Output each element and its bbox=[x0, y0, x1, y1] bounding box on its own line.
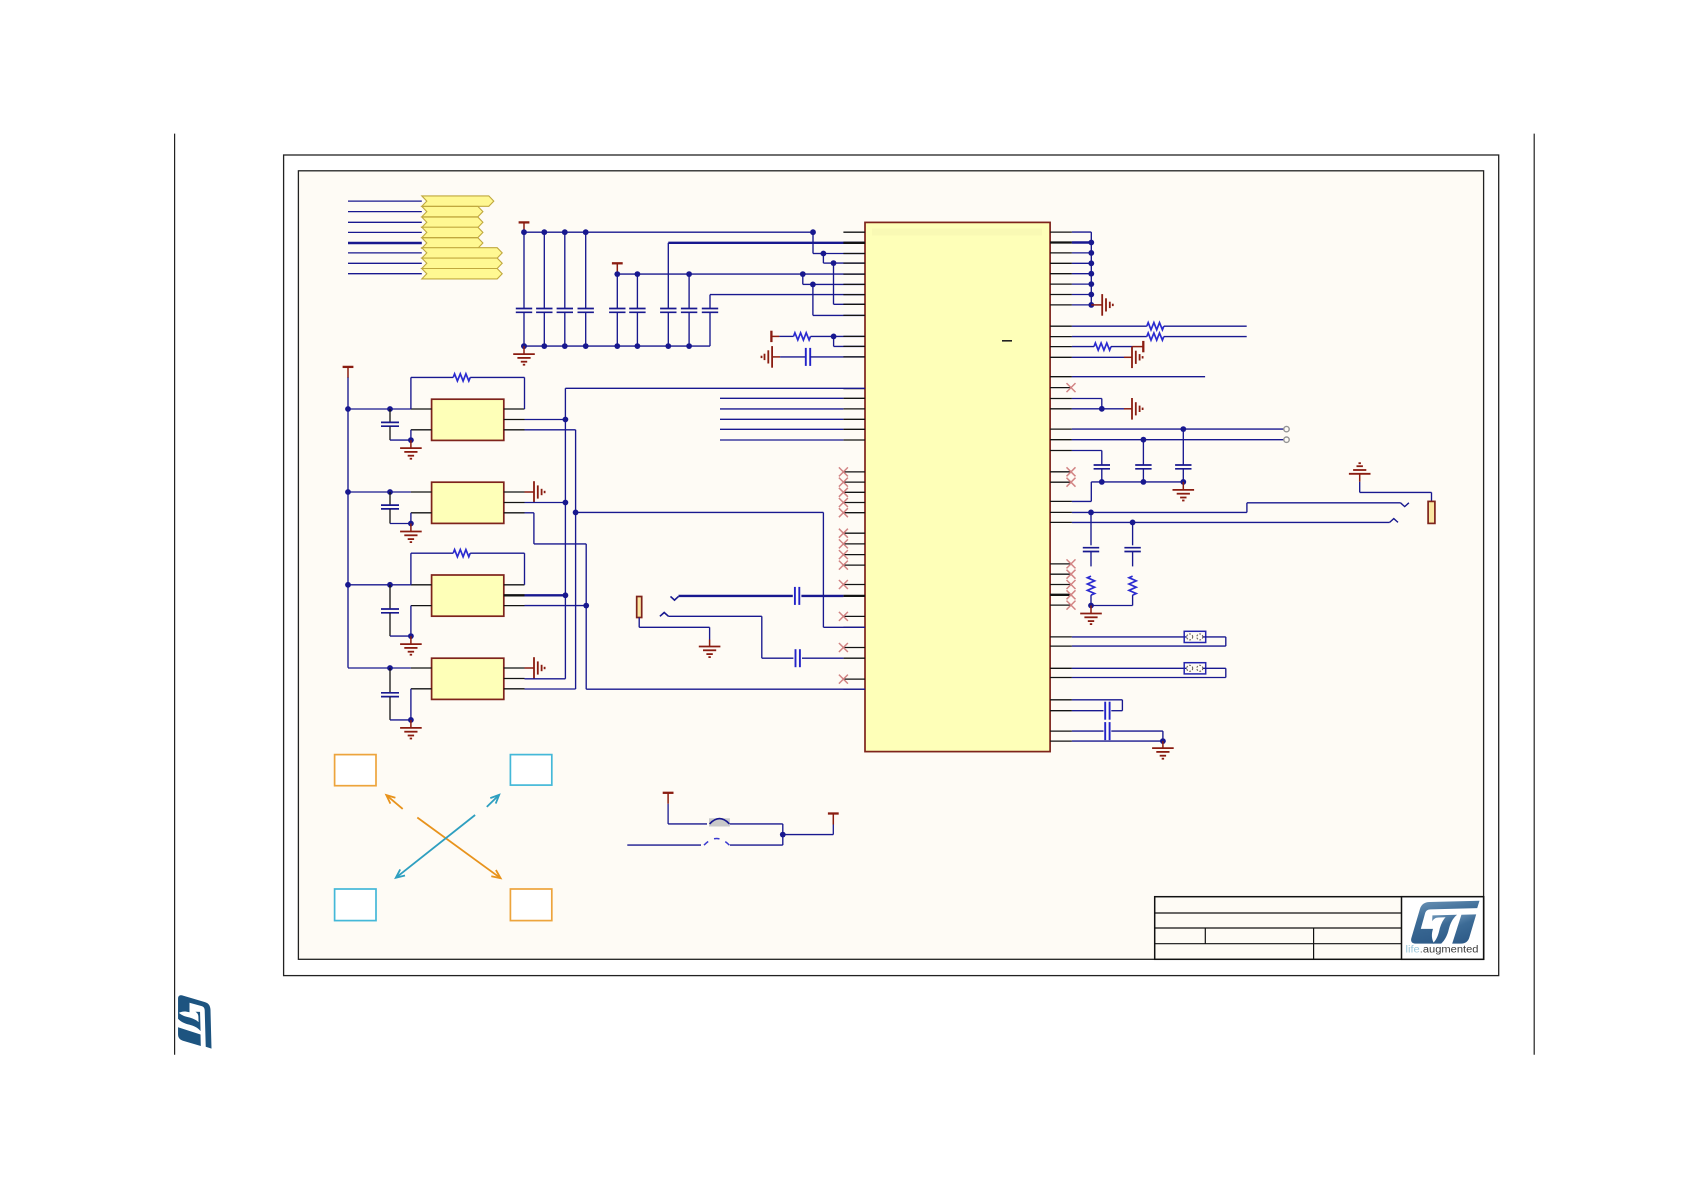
svg-text:life.augmented: life.augmented bbox=[1406, 945, 1479, 956]
